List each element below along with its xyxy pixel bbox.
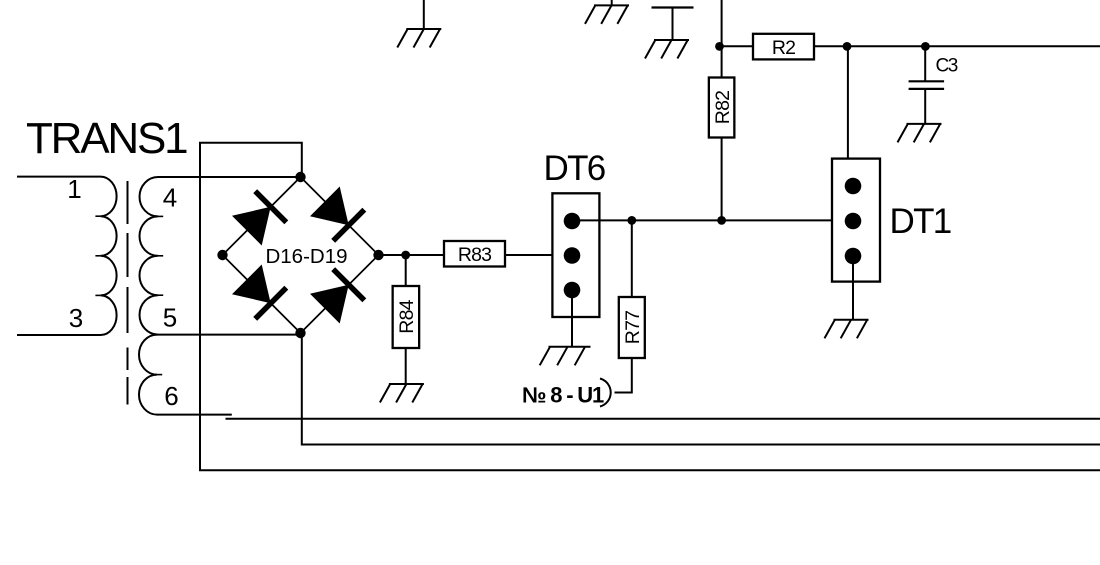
svg-text:R83: R83 (458, 244, 491, 266)
svg-text:C3: C3 (936, 56, 958, 77)
svg-text:R84: R84 (396, 299, 418, 333)
svg-text:5: 5 (163, 303, 177, 333)
svg-text:4: 4 (163, 183, 177, 213)
svg-text:DT1: DT1 (890, 202, 951, 241)
svg-text:3: 3 (69, 303, 83, 333)
svg-text:DT6: DT6 (544, 149, 605, 188)
svg-text:6: 6 (164, 381, 178, 411)
svg-text:R82: R82 (712, 91, 734, 124)
svg-text:№ 8 - U1: № 8 - U1 (522, 383, 604, 408)
svg-text:R2: R2 (772, 37, 795, 59)
svg-text:1: 1 (67, 174, 81, 204)
svg-text:TRANS1: TRANS1 (26, 114, 187, 163)
svg-text:D16-D19: D16-D19 (265, 245, 347, 268)
svg-text:R77: R77 (622, 311, 644, 344)
